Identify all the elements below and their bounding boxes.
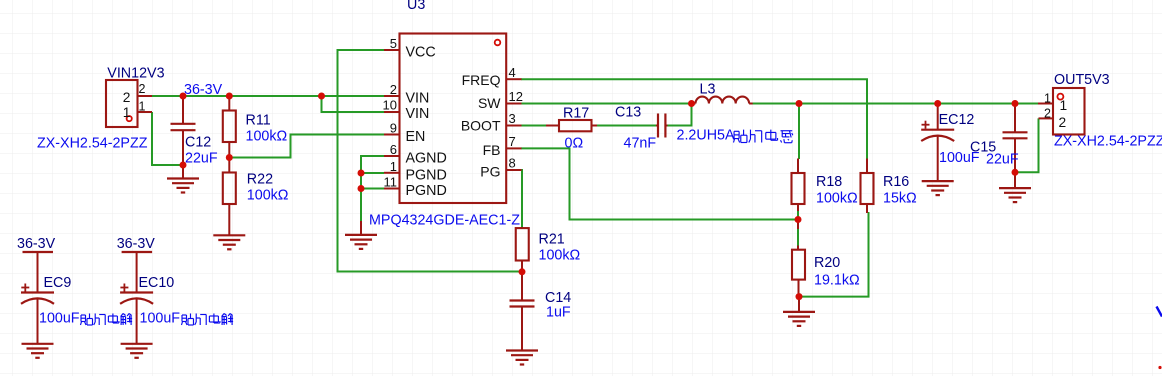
clipped text artifact right edge xyxy=(1157,307,1162,317)
U3 part number label xyxy=(369,213,520,229)
svg-text:100uF: 100uF xyxy=(140,311,181,327)
wire connector pin1 to C12 bottom xyxy=(152,112,181,165)
svg-text:12: 12 xyxy=(509,89,523,104)
wire C13 to SW node xyxy=(668,104,692,126)
svg-text:VIN12V3: VIN12V3 xyxy=(107,66,164,82)
junction node C12 bottom xyxy=(180,162,187,169)
svg-text:4: 4 xyxy=(509,65,516,80)
junction node L3 out xyxy=(796,100,803,107)
U3 pin 1 PGND stub xyxy=(384,159,447,184)
svg-text:BOOT: BOOT xyxy=(461,118,501,134)
capacitor C15 labels xyxy=(970,140,1019,168)
capacitor C12 xyxy=(171,96,196,178)
junction node C15 top xyxy=(1012,100,1019,107)
svg-text:100kΩ: 100kΩ xyxy=(539,248,581,264)
svg-text:PGND: PGND xyxy=(406,168,447,184)
capacitor C13 labels xyxy=(615,105,656,152)
wire L3 to output rail xyxy=(750,103,1038,105)
svg-text:R21: R21 xyxy=(539,232,565,248)
svg-text:C13: C13 xyxy=(615,105,641,121)
svg-text:L3: L3 xyxy=(700,82,716,98)
resistor R20 xyxy=(792,220,805,297)
capacitor C13 xyxy=(656,114,668,138)
connector OUT5V3 body xyxy=(1053,88,1085,135)
wire FB to divider node xyxy=(521,148,798,219)
capacitor C15 xyxy=(1003,104,1028,173)
U3 pin 4 FREQ stub xyxy=(462,65,522,88)
connector OUT5V3 pin 1 xyxy=(1038,92,1067,114)
svg-text:FB: FB xyxy=(483,142,501,158)
U3 pin 3 BOOT stub xyxy=(461,111,522,134)
resistor R17 xyxy=(546,120,597,131)
svg-text:22uF: 22uF xyxy=(185,151,218,167)
svg-text:36-3V: 36-3V xyxy=(117,236,156,252)
capacitor EC9 labels xyxy=(39,275,132,327)
ground under EC10 xyxy=(121,344,153,358)
svg-text:47nF: 47nF xyxy=(624,136,657,152)
resistor R22 labels xyxy=(247,172,289,204)
U3 pin 2 VIN stub xyxy=(384,82,429,107)
svg-text:OUT5V3: OUT5V3 xyxy=(1054,72,1110,88)
svg-text:3: 3 xyxy=(509,111,516,126)
svg-text:VIN: VIN xyxy=(406,106,430,122)
svg-text:MPQ4324GDE-AEC1-Z: MPQ4324GDE-AEC1-Z xyxy=(369,213,520,229)
connector VIN12V3 body xyxy=(106,80,138,127)
resistor R21 xyxy=(516,227,529,272)
svg-text:EC10: EC10 xyxy=(139,275,175,291)
connector OUT5V3 part number xyxy=(1054,134,1162,150)
svg-text:36-3V: 36-3V xyxy=(17,236,56,252)
wire R11 bottom to EN xyxy=(231,135,384,158)
power flag 36-3V at EC9 xyxy=(17,236,56,293)
junction node R20 bottom xyxy=(796,293,803,300)
U3 designator label xyxy=(407,0,425,13)
svg-text:100kΩ: 100kΩ xyxy=(246,129,288,145)
svg-text:1: 1 xyxy=(1060,98,1068,113)
U3 pin 8 PG stub xyxy=(480,156,521,180)
svg-text:9: 9 xyxy=(390,121,397,136)
wire R18 bottom to node xyxy=(797,211,799,220)
resistor R11 labels xyxy=(246,113,288,145)
resistor R11 xyxy=(223,96,236,158)
ground under C12 xyxy=(167,179,199,193)
svg-text:AGND: AGND xyxy=(406,151,447,167)
inductor L3 value label xyxy=(677,128,793,144)
svg-text:R20: R20 xyxy=(814,255,840,271)
svg-text:5: 5 xyxy=(390,36,397,51)
resistor R22 xyxy=(223,158,236,236)
svg-text:2: 2 xyxy=(123,90,131,105)
wire node to R20 xyxy=(797,229,799,247)
svg-text:1uF: 1uF xyxy=(546,305,571,321)
ground under R22 xyxy=(213,235,245,249)
wire VIN rail 36-3V xyxy=(152,95,384,97)
ground under U3 AGND xyxy=(345,221,377,249)
svg-text:2: 2 xyxy=(1059,115,1067,130)
ground under EC9 xyxy=(22,344,54,358)
svg-text:1: 1 xyxy=(390,159,397,174)
svg-text:R18: R18 xyxy=(816,174,842,190)
svg-text:VIN: VIN xyxy=(406,91,430,107)
connector VIN12V3 part number xyxy=(37,136,148,152)
U3 pin 6 AGND stub xyxy=(384,142,447,167)
svg-text:2: 2 xyxy=(390,82,397,97)
svg-text:PGND: PGND xyxy=(406,183,447,199)
svg-text:2: 2 xyxy=(139,82,146,96)
net label 36-3V on input rail xyxy=(184,82,223,98)
inductor L3 xyxy=(692,97,753,104)
resistor R17 labels xyxy=(563,106,589,152)
svg-text:R22: R22 xyxy=(247,172,273,188)
svg-text:1: 1 xyxy=(123,105,131,120)
resistor R16 labels xyxy=(883,174,917,207)
svg-text:ZX-XH2.54-2PZZ: ZX-XH2.54-2PZZ xyxy=(37,136,148,152)
resistor R16 xyxy=(861,159,874,214)
svg-text:10: 10 xyxy=(383,98,397,113)
connector VIN12V3 pin 1 xyxy=(123,100,152,121)
U3 pin 7 FB stub xyxy=(483,134,522,158)
U3 pin 5 VCC stub xyxy=(384,36,436,61)
svg-text:R17: R17 xyxy=(563,106,589,122)
svg-text:2.2UH5A: 2.2UH5A xyxy=(677,128,735,144)
svg-text:1: 1 xyxy=(139,100,146,114)
svg-text:1: 1 xyxy=(1044,92,1051,106)
svg-text:U3: U3 xyxy=(407,0,425,13)
svg-text:0Ω: 0Ω xyxy=(565,136,584,152)
capacitor C14 xyxy=(510,272,535,351)
svg-text:SW: SW xyxy=(478,95,501,111)
junction node on rail at pin10 branch xyxy=(318,93,325,100)
wire PGND pin11 stub xyxy=(361,188,384,190)
svg-text:22uF: 22uF xyxy=(986,152,1019,168)
junction node PGND pin1 xyxy=(358,170,365,177)
svg-text:PG: PG xyxy=(480,164,500,180)
junction node FB divider xyxy=(795,216,802,223)
svg-text:2: 2 xyxy=(1044,107,1051,121)
op-amp U3 MPQ4324GDE-AEC1-Z body xyxy=(400,34,507,204)
junction node R21-C14 xyxy=(519,268,526,275)
svg-text:EC12: EC12 xyxy=(939,112,975,128)
wire R18 top lead from rail xyxy=(798,104,800,160)
inductor L3 designator xyxy=(700,82,716,98)
svg-text:EN: EN xyxy=(406,129,426,145)
svg-text:ZX-XH2.54-2PZZ: ZX-XH2.54-2PZZ xyxy=(1054,134,1162,150)
U3 pin 12 SW stub xyxy=(478,89,523,111)
svg-text:100uF: 100uF xyxy=(39,311,80,327)
junction node on rail at R11 xyxy=(226,93,233,100)
svg-text:6: 6 xyxy=(390,142,397,157)
U3 pin 11 PGND stub xyxy=(384,175,447,200)
capacitor EC10 labels xyxy=(139,275,234,327)
ground under C15 xyxy=(999,172,1031,202)
wire BOOT to R17 xyxy=(521,125,546,127)
wire PG to R21 xyxy=(521,170,522,227)
wire SW to L3 node xyxy=(521,103,692,105)
junction node SW-L3-C13 xyxy=(688,100,695,107)
resistor R21 labels xyxy=(539,232,581,264)
connector VIN12V3 designator xyxy=(107,66,164,82)
svg-text:VCC: VCC xyxy=(406,45,436,61)
junction node PGND pin11 xyxy=(358,185,365,192)
wire R20 bottom to R16 bottom xyxy=(799,212,869,297)
resistor R20 labels xyxy=(814,255,860,289)
svg-text:EC9: EC9 xyxy=(44,275,72,291)
wire VCC feed from rail branch xyxy=(338,50,521,272)
capacitor EC12 polarized xyxy=(921,104,954,181)
capacitor C12 labels xyxy=(185,135,218,167)
clipped red mark bottom right corner xyxy=(1158,366,1161,369)
junction node R11-R22 xyxy=(226,154,233,161)
wire PGND pin1 stub xyxy=(361,172,384,174)
ground under EC12 xyxy=(922,181,954,195)
junction node EC12 top xyxy=(934,100,941,107)
svg-text:11: 11 xyxy=(384,175,398,190)
connector OUT5V3 pin 2 xyxy=(1039,107,1067,131)
svg-text:19.1kΩ: 19.1kΩ xyxy=(814,273,860,289)
resistor R18 xyxy=(792,159,805,212)
wire FREQ to R16 xyxy=(521,79,867,159)
svg-text:100kΩ: 100kΩ xyxy=(816,191,858,207)
wire AGND to PGND column xyxy=(361,156,384,221)
connector VIN12V3 pin 2 xyxy=(123,82,152,105)
svg-text:C12: C12 xyxy=(185,135,211,151)
svg-text:FREQ: FREQ xyxy=(462,72,501,88)
svg-text:100kΩ: 100kΩ xyxy=(247,188,289,204)
capacitor EC12 labels xyxy=(939,112,980,166)
resistor R18 labels xyxy=(816,174,858,207)
capacitor EC9 polarized xyxy=(21,284,54,344)
svg-text:7: 7 xyxy=(509,134,516,149)
capacitor C14 labels xyxy=(545,290,571,321)
svg-text:R11: R11 xyxy=(246,113,271,129)
capacitor EC10 polarized xyxy=(120,284,153,344)
U3 pin 9 EN stub xyxy=(384,121,425,146)
junction node on rail at C12 xyxy=(180,93,187,100)
connector OUT5V3 designator xyxy=(1054,72,1110,88)
wire R17 to C13 xyxy=(597,125,656,127)
power flag 36-3V at EC10 xyxy=(117,236,156,293)
svg-text:R16: R16 xyxy=(883,174,909,190)
junction node C15 bottom xyxy=(1012,169,1019,176)
svg-text:15kΩ: 15kΩ xyxy=(883,191,917,207)
wire C15 bottom to OUT pin2 xyxy=(1015,118,1039,172)
ground under R20 xyxy=(783,297,815,326)
wire pin10 VIN branch xyxy=(322,96,385,112)
svg-text:8: 8 xyxy=(509,156,516,171)
ground under C14 xyxy=(506,351,538,365)
U3 pin 10 VIN stub xyxy=(383,98,430,123)
svg-text:36-3V: 36-3V xyxy=(184,82,223,98)
